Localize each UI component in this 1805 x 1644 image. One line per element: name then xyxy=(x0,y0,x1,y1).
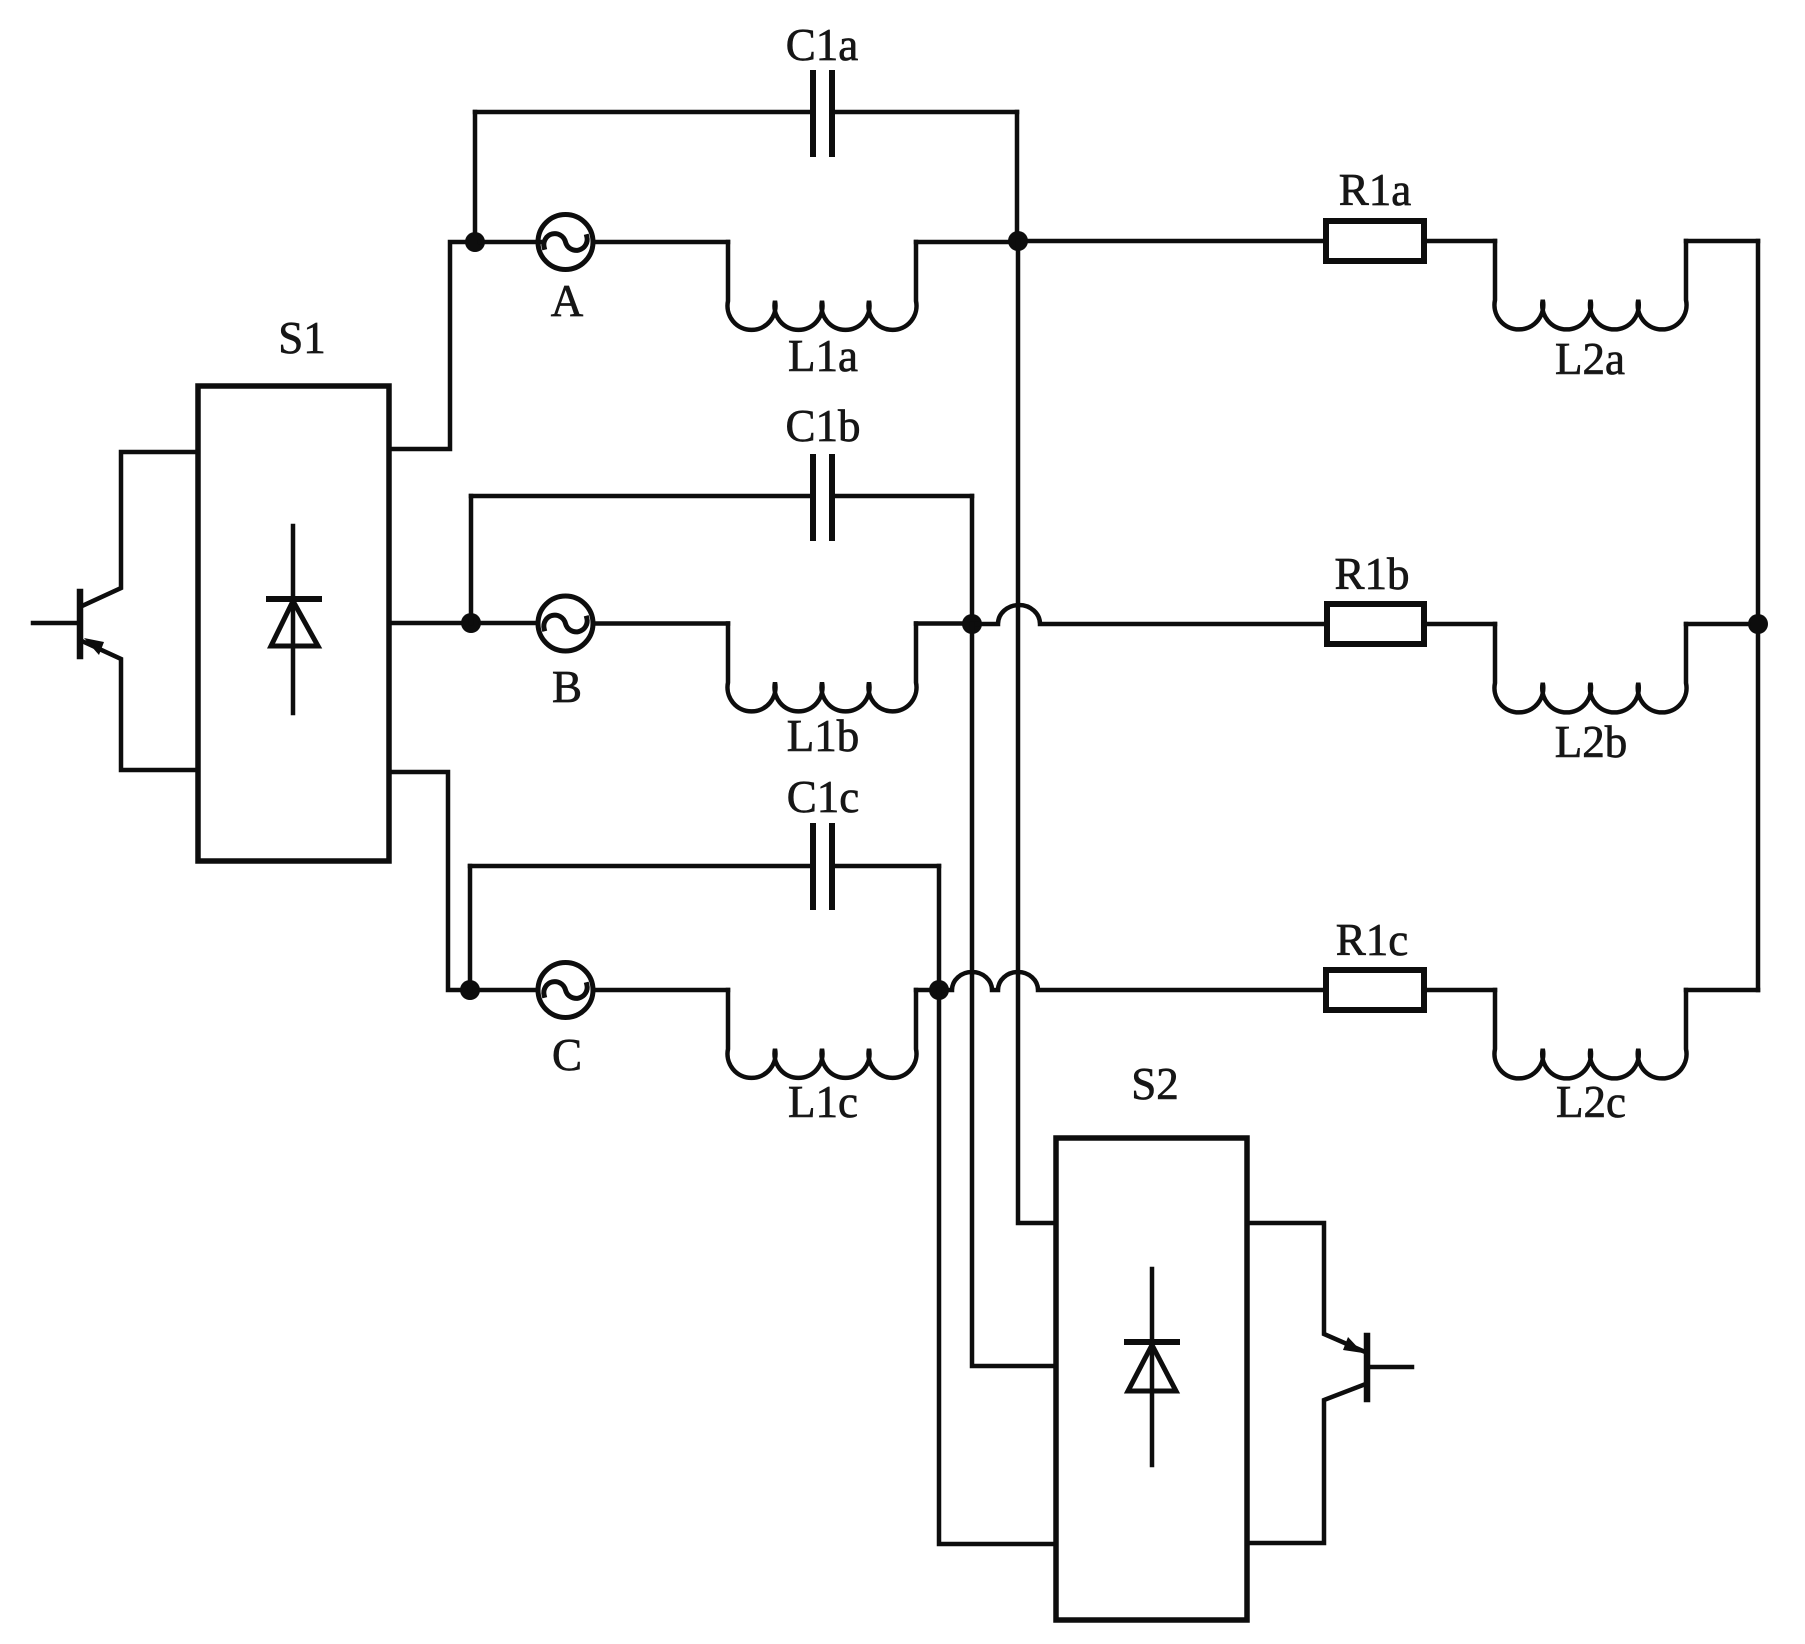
wire C1c left drop xyxy=(468,866,473,990)
AC source C xyxy=(538,963,593,1018)
capacitor C1b xyxy=(813,457,832,538)
resistor R1a xyxy=(1326,221,1424,261)
node B junction xyxy=(962,614,982,634)
wire C1c top loop right segment xyxy=(835,864,939,869)
inductor L1b xyxy=(728,624,917,712)
svg-text:R1c: R1c xyxy=(1336,915,1409,965)
wire C1b right drop xyxy=(970,496,975,624)
transistor Q1 emitter path xyxy=(82,641,198,770)
transistor Q1 base bar xyxy=(77,592,84,656)
wire source C to L1c xyxy=(593,988,728,993)
inductor L2c xyxy=(1494,990,1686,1078)
wire L2c to right bus bottom corner xyxy=(1686,988,1758,993)
svg-text:C1a: C1a xyxy=(786,20,859,70)
wire right bus vertical xyxy=(1756,241,1761,990)
S2 box xyxy=(1056,1138,1247,1620)
AC source A xyxy=(538,215,593,270)
wire node A to R1a xyxy=(1018,239,1326,244)
svg-text:L1a: L1a xyxy=(788,331,858,381)
svg-text:R1a: R1a xyxy=(1339,165,1412,215)
resistor R1b xyxy=(1327,604,1424,644)
transistor Q2 collector arrow xyxy=(1343,1337,1363,1353)
diode S1 triangle xyxy=(271,601,318,646)
wire node B-left to source B xyxy=(481,621,538,626)
svg-text:A: A xyxy=(551,276,584,326)
svg-text:L1b: L1b xyxy=(787,711,860,761)
wire node C-left to source C xyxy=(480,988,538,993)
AC source B xyxy=(538,596,593,651)
svg-text:S1: S1 xyxy=(278,313,326,363)
wire C-line from node C down to S2 xyxy=(939,990,1056,1544)
wire L1c to node C xyxy=(916,988,929,993)
capacitor C1a xyxy=(813,73,832,154)
wire B-line from node B down to S2 xyxy=(972,624,1056,1366)
svg-text:C: C xyxy=(552,1030,582,1080)
diode S1 cathode bar xyxy=(269,596,319,602)
wire node B to R1b with hop over A-line xyxy=(972,605,1327,624)
inductor L1a xyxy=(728,242,917,330)
wire C1a top loop left segment xyxy=(475,110,809,115)
S1 box xyxy=(198,386,389,861)
wire C1b top loop right segment xyxy=(835,494,972,499)
wire source B to L1b xyxy=(593,621,728,626)
wire source A to L1a xyxy=(593,240,728,245)
transistor Q1 gate lead xyxy=(33,621,77,626)
diode S2 triangle xyxy=(1128,1345,1176,1391)
svg-text:L2c: L2c xyxy=(1556,1077,1626,1127)
diode inside S2: lead xyxy=(1150,1269,1155,1465)
wire C1c top loop left segment xyxy=(470,864,809,869)
wire node A-left to source A xyxy=(480,240,540,245)
svg-text:L2a: L2a xyxy=(1555,334,1625,384)
transistor Q1 collector path xyxy=(82,452,198,606)
capacitor C1c xyxy=(813,826,832,907)
svg-text:R1b: R1b xyxy=(1334,549,1409,599)
wire R1b to L2b xyxy=(1424,622,1495,627)
transistor Q1 emitter arrow xyxy=(84,638,104,655)
inductor L2a xyxy=(1494,241,1686,329)
diode S2 cathode bar xyxy=(1127,1339,1177,1345)
wire L1a to node A xyxy=(916,240,1008,245)
wire C1a top loop right segment xyxy=(835,110,1017,115)
svg-text:L2b: L2b xyxy=(1555,717,1628,767)
inductor L2b xyxy=(1494,624,1686,712)
node A junction xyxy=(1008,231,1028,251)
wire S1 top port to node A-left xyxy=(389,242,466,449)
wire C1b left drop xyxy=(469,496,474,623)
wire S1 bottom port to node C-left xyxy=(389,772,460,990)
wire L1b to node B xyxy=(916,621,962,626)
wire L2b to right bus xyxy=(1686,622,1748,627)
svg-text:C1b: C1b xyxy=(785,401,860,451)
wire C1b top loop left segment xyxy=(471,494,809,499)
wire R1c to L2c xyxy=(1424,988,1495,993)
transistor Q2 base bar xyxy=(1364,1336,1371,1399)
wire C1a right drop xyxy=(1015,112,1020,241)
wire C1a left drop xyxy=(473,112,478,242)
wire L2a to right bus top corner xyxy=(1686,239,1758,244)
wire S1 mid port to node B-left xyxy=(389,621,461,626)
transistor Q2 collector path xyxy=(1247,1223,1363,1351)
node A-left junction xyxy=(465,232,485,252)
svg-text:S2: S2 xyxy=(1131,1059,1179,1109)
wire node C to R1c with hops over B-line and A-line xyxy=(939,972,1326,990)
node B-left junction xyxy=(461,613,481,633)
inductor L1c xyxy=(728,990,917,1078)
svg-text:C1c: C1c xyxy=(787,772,860,822)
svg-text:L1c: L1c xyxy=(788,1077,858,1127)
transistor Q2 gate lead xyxy=(1370,1365,1412,1370)
node C-left junction xyxy=(460,980,480,1000)
resistor R1c xyxy=(1326,970,1424,1010)
node right-bus junction xyxy=(1748,614,1768,634)
wire R1a to L2a xyxy=(1424,239,1495,244)
svg-text:B: B xyxy=(552,662,582,712)
transistor Q2 emitter path xyxy=(1247,1385,1363,1543)
diode inside S1: lead xyxy=(291,526,296,713)
wire A-line from node A down to S2 xyxy=(1018,241,1056,1223)
wire C1c right drop xyxy=(937,866,942,990)
node C junction xyxy=(929,980,949,1000)
